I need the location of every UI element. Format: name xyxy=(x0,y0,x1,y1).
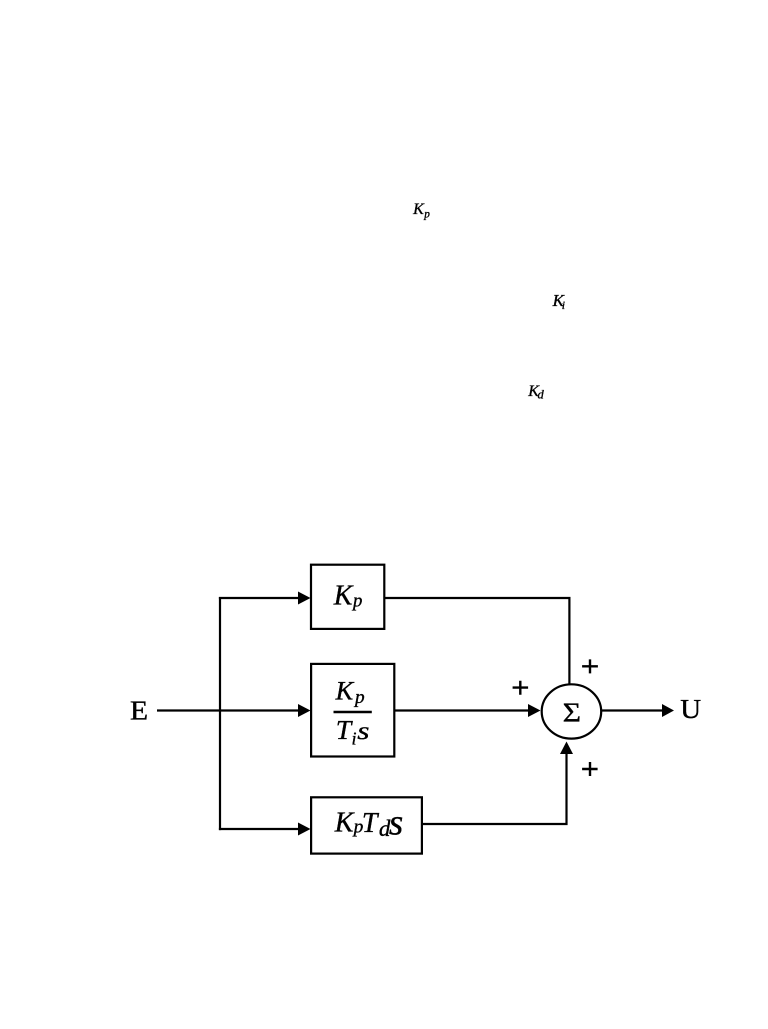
svg-text:s: s xyxy=(357,718,369,746)
block KpTds (derivative) xyxy=(311,797,422,853)
wire summer to output xyxy=(601,709,663,711)
arrowhead output xyxy=(662,704,674,717)
node Ki (upper label) xyxy=(552,291,566,312)
label KpTds in bottom block xyxy=(334,802,404,843)
svg-text:K: K xyxy=(334,807,355,838)
node Kp (upper label) xyxy=(412,201,430,221)
svg-text:E: E xyxy=(130,695,148,726)
wire bottom block to summer xyxy=(423,753,567,824)
svg-text:K: K xyxy=(333,581,354,612)
arrowhead into middle block xyxy=(298,704,311,717)
label Kp fraction numerator xyxy=(335,676,365,708)
svg-text:i: i xyxy=(352,729,357,749)
svg-text:U: U xyxy=(680,695,701,725)
label Tis fraction denominator xyxy=(336,714,370,748)
node U (output) xyxy=(680,695,701,725)
wire middle block to summer xyxy=(394,709,529,711)
fraction bar xyxy=(334,711,372,714)
svg-text:i: i xyxy=(562,298,565,312)
svg-text:K: K xyxy=(412,201,425,218)
wire branch to top block xyxy=(219,597,299,599)
svg-text:p: p xyxy=(351,591,362,612)
label Kp in top block xyxy=(333,581,363,612)
node E (input) xyxy=(130,695,148,726)
label sigma xyxy=(563,697,581,728)
arrowhead into summer (bottom) xyxy=(560,742,573,755)
wire branch to bottom block xyxy=(219,828,299,830)
plus sign (top input) xyxy=(582,659,598,673)
block Kp (proportional) xyxy=(311,565,384,629)
summer circle xyxy=(542,684,602,738)
wire top block to summer xyxy=(384,598,569,685)
wire branch vertical xyxy=(219,597,221,830)
arrowhead into top block xyxy=(298,592,311,605)
arrowhead into bottom block xyxy=(298,823,311,836)
svg-text:T: T xyxy=(362,808,380,839)
svg-text:s: s xyxy=(389,802,403,843)
plus sign (middle input) xyxy=(513,681,529,695)
plus sign (bottom input) xyxy=(582,762,598,776)
svg-text:p: p xyxy=(353,687,365,708)
block Kp/Tis (integral) xyxy=(311,664,394,757)
svg-text:K: K xyxy=(335,676,355,706)
svg-text:Σ: Σ xyxy=(563,697,581,728)
node Kd (upper label) xyxy=(527,383,544,401)
arrowhead into summer (left) xyxy=(528,704,541,717)
svg-text:d: d xyxy=(538,387,545,401)
svg-text:p: p xyxy=(423,209,430,221)
wire E to middle block xyxy=(157,709,299,711)
